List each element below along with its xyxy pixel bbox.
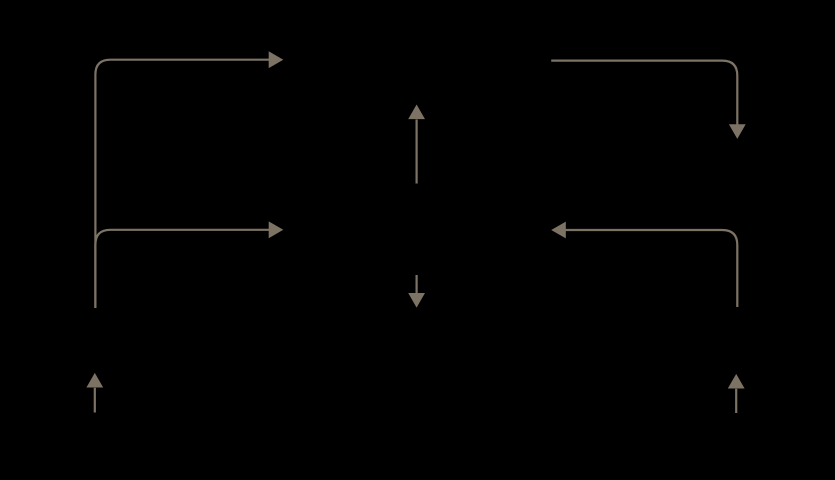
arrowhead: bottom-right up arrow <box>728 374 745 389</box>
wire: bottom-left up arrow shaft <box>94 388 96 413</box>
wire: bottom-right up arrow shaft <box>735 389 737 413</box>
wire: center up arrow shaft <box>416 120 418 184</box>
wire: left inner elbow (bottom-left node to middle-center node) <box>95 230 269 308</box>
wire: top-right elbow (top-center node to right node) <box>551 61 737 125</box>
arrowhead: center down arrow <box>408 293 425 308</box>
wire: left outer elbow (bottom-left node up to top-center node) <box>95 60 269 308</box>
wire: right middle elbow (right node to middle-center node) <box>565 230 737 307</box>
arrowhead: into top-center node (right-pointing) <box>269 51 284 68</box>
arrowhead: bottom-left up arrow <box>86 373 103 388</box>
arrowhead: into middle-center node left side (right-pointing) <box>269 221 284 238</box>
wire: center down arrow shaft <box>416 275 418 293</box>
arrowhead: center up arrow <box>408 105 425 120</box>
arrowhead: into middle-center node right side (left-pointing) <box>551 222 566 239</box>
arrowhead: top-right down arrow <box>729 124 746 139</box>
